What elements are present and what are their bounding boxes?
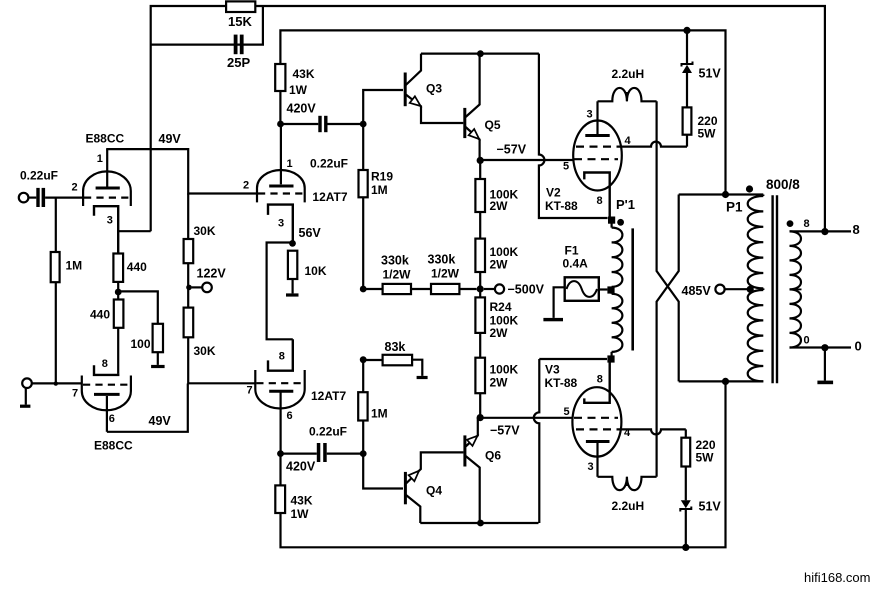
winding P'1 xyxy=(612,220,623,359)
wire collector rail Q3/Q5 xyxy=(421,50,539,57)
svg-text:R24: R24 xyxy=(490,300,512,314)
svg-text:25P: 25P xyxy=(227,55,250,70)
svg-text:−500V: −500V xyxy=(508,283,545,297)
svg-text:Q3: Q3 xyxy=(426,82,442,96)
fuse F1 0.4A xyxy=(563,244,608,301)
svg-text:2.2uH: 2.2uH xyxy=(612,67,645,81)
cathode 12AT7 lower xyxy=(268,339,293,370)
svg-text:30K: 30K xyxy=(194,224,216,238)
zener diode 51V upper xyxy=(682,27,722,81)
svg-text:12AT7: 12AT7 xyxy=(312,190,347,204)
capacitor 0.22uF upper coupling xyxy=(281,116,367,171)
ground fuse xyxy=(543,287,564,321)
svg-text:E88CC: E88CC xyxy=(86,132,125,146)
node -57V lower xyxy=(477,414,521,438)
svg-text:1M: 1M xyxy=(371,183,388,197)
winding P1 primary xyxy=(748,195,764,382)
svg-text:43K: 43K xyxy=(291,494,313,508)
svg-text:485V: 485V xyxy=(682,284,712,298)
svg-text:4: 4 xyxy=(625,135,632,147)
svg-text:KT-88: KT-88 xyxy=(545,376,578,390)
cathode 12AT7 upper xyxy=(268,205,321,247)
transistor Q4 xyxy=(404,452,464,523)
svg-text:F1: F1 xyxy=(565,244,579,258)
svg-text:KT-88: KT-88 xyxy=(545,199,578,213)
node 485V xyxy=(682,284,754,298)
svg-text:8: 8 xyxy=(597,195,603,207)
svg-text:−57V: −57V xyxy=(490,424,520,438)
resistor 100K #1 xyxy=(475,160,518,213)
cathode V1a xyxy=(94,206,118,253)
wire bottom rail xyxy=(281,381,726,547)
svg-text:51V: 51V xyxy=(699,67,722,81)
inductor 2.2uH upper xyxy=(598,67,657,101)
wire V3 pin 4 (hops vertical) xyxy=(621,429,685,434)
tube 12AT7 lower envelope xyxy=(247,351,347,423)
wire anode V1a to 12AT7 grid xyxy=(106,149,257,193)
resistor 10K xyxy=(288,251,327,294)
svg-text:1M: 1M xyxy=(66,259,83,273)
watermark xyxy=(804,570,870,585)
wire V2 anode branch to P1 bottom xyxy=(657,101,679,381)
node -57V upper xyxy=(477,143,527,164)
resistor 440 lower xyxy=(90,300,123,374)
node P'1 bottom xyxy=(607,355,614,362)
core P'1 xyxy=(631,228,634,350)
node -500V xyxy=(477,283,545,297)
node 122V xyxy=(186,267,226,293)
svg-text:P'1: P'1 xyxy=(616,197,635,212)
svg-text:6: 6 xyxy=(287,410,293,422)
tube E88CC upper envelope xyxy=(72,132,131,227)
resistor 220 5W lower xyxy=(681,429,715,500)
svg-text:2W: 2W xyxy=(490,376,509,390)
svg-text:5W: 5W xyxy=(696,451,715,465)
svg-text:Q6: Q6 xyxy=(485,449,501,463)
svg-text:hifi168.com: hifi168.com xyxy=(804,570,870,585)
svg-text:2.2uH: 2.2uH xyxy=(612,499,645,513)
capacitor 0.22uF input xyxy=(20,169,58,208)
node secondary phase dot xyxy=(787,220,794,227)
node P'1 top xyxy=(608,197,635,226)
svg-text:8: 8 xyxy=(804,218,810,230)
svg-text:8: 8 xyxy=(279,351,285,363)
anode 12AT7 upper xyxy=(269,124,293,186)
node input 2 xyxy=(22,378,82,388)
wire cathodes 12AT7 tie xyxy=(267,243,293,340)
winding 800/8 secondary xyxy=(766,177,802,348)
resistor 43K lower xyxy=(275,450,316,521)
wire -57V to V2 grid pin 5 xyxy=(480,159,573,161)
wire grid V3b 12AT7 lower xyxy=(188,382,255,384)
resistor 30K lower xyxy=(184,308,216,384)
svg-text:5W: 5W xyxy=(698,127,717,141)
svg-text:800/8: 800/8 xyxy=(766,177,800,192)
anode V2 xyxy=(585,101,609,135)
resistor 100 xyxy=(118,291,163,365)
svg-text:330k: 330k xyxy=(428,253,456,267)
svg-text:0.4A: 0.4A xyxy=(563,257,589,271)
wire P1 bottom xyxy=(679,378,764,385)
anode V1b xyxy=(94,394,120,431)
node output 0 xyxy=(790,335,862,354)
svg-text:2W: 2W xyxy=(490,258,509,272)
ground input 2 xyxy=(20,388,30,408)
wire cathode V1a to feedback xyxy=(118,132,181,231)
wire P'1 bottom left xyxy=(539,358,607,360)
wire B+ rail (420V/485V) xyxy=(280,30,725,194)
svg-text:3: 3 xyxy=(588,461,594,473)
tube V2 envelope xyxy=(545,109,632,214)
wire 25P branch xyxy=(151,7,263,45)
resistor 30K upper xyxy=(184,194,216,308)
resistor 100K #4 xyxy=(475,358,518,418)
svg-text:0.22uF: 0.22uF xyxy=(20,169,58,183)
svg-text:5: 5 xyxy=(563,161,569,173)
cathode V1b xyxy=(94,365,118,375)
svg-text:0.22uF: 0.22uF xyxy=(309,425,347,439)
svg-text:0: 0 xyxy=(855,339,862,354)
wire input grid xyxy=(45,197,83,199)
resistor 100K #2 xyxy=(475,212,518,297)
svg-text:2W: 2W xyxy=(490,326,509,340)
ground output xyxy=(817,348,833,385)
svg-text:Q5: Q5 xyxy=(485,118,501,132)
svg-text:7: 7 xyxy=(72,388,78,400)
capacitor 0.22uF lower coupling xyxy=(281,425,367,463)
ground 10K xyxy=(286,293,299,296)
svg-text:2W: 2W xyxy=(490,199,509,213)
svg-text:8: 8 xyxy=(102,358,108,370)
svg-text:49V: 49V xyxy=(159,132,182,146)
svg-text:6: 6 xyxy=(109,413,115,425)
node P1 phase dot xyxy=(726,185,753,214)
svg-text:12AT7: 12AT7 xyxy=(311,389,346,403)
svg-text:49V: 49V xyxy=(149,414,172,428)
svg-text:440: 440 xyxy=(90,308,110,322)
wire P'1 bottom to Q4/Q6 emitters (hops -57V wire) xyxy=(534,359,539,523)
resistor 83k xyxy=(363,340,422,376)
wire P1 top branch to V3 anode (hops pin4 wire) xyxy=(657,195,679,477)
svg-text:E88CC: E88CC xyxy=(94,439,133,453)
node input 1 xyxy=(19,193,37,203)
svg-text:1M: 1M xyxy=(371,407,388,421)
svg-text:83k: 83k xyxy=(385,340,406,354)
resistor 220 5W upper xyxy=(683,73,718,147)
svg-text:43K: 43K xyxy=(293,67,315,81)
resistor 440 upper xyxy=(113,254,147,300)
svg-text:8: 8 xyxy=(853,222,860,237)
resistor 15K xyxy=(226,1,255,29)
ground 83k xyxy=(417,376,428,379)
grid dashes V3 xyxy=(574,418,621,430)
anode V1a xyxy=(96,149,120,188)
wire base Q4 xyxy=(363,454,403,489)
svg-text:R19: R19 xyxy=(371,170,393,184)
anode V3 xyxy=(586,442,610,477)
resistor 330k right xyxy=(411,253,477,295)
wire -57V to V3 grid pin 5 xyxy=(480,417,572,419)
cathode V2 xyxy=(584,173,609,219)
svg-text:P1: P1 xyxy=(726,200,743,215)
svg-text:10K: 10K xyxy=(305,264,327,278)
svg-text:51V: 51V xyxy=(699,500,722,514)
svg-text:7: 7 xyxy=(247,385,253,397)
svg-text:8: 8 xyxy=(597,374,603,386)
svg-text:1W: 1W xyxy=(289,83,308,97)
wire base Q3 xyxy=(363,90,403,124)
wire V2 pin 4 (hops vertical) xyxy=(622,142,687,147)
svg-text:0: 0 xyxy=(804,335,810,347)
tube V3 envelope xyxy=(545,363,632,474)
wire anode V1b to 30K node xyxy=(107,384,188,432)
svg-text:2: 2 xyxy=(72,182,78,194)
svg-text:330k: 330k xyxy=(381,254,409,268)
transistor Q5 xyxy=(463,54,501,161)
tube E88CC lower envelope xyxy=(72,358,133,453)
svg-text:3: 3 xyxy=(587,109,593,121)
svg-text:Q4: Q4 xyxy=(426,484,442,498)
svg-text:420V: 420V xyxy=(287,102,317,116)
svg-text:1: 1 xyxy=(287,158,293,170)
resistor 43K upper xyxy=(275,64,316,127)
node P'1 center tap xyxy=(607,286,614,293)
wire P1 top xyxy=(679,191,764,198)
cathode V3 xyxy=(584,359,609,403)
svg-text:100K: 100K xyxy=(490,363,519,377)
svg-text:0.22uF: 0.22uF xyxy=(310,157,348,171)
wire emitters Q4/Q6 xyxy=(420,520,538,527)
resistor 1M lower xyxy=(358,356,387,453)
grid dashes V2 xyxy=(574,147,621,160)
svg-text:V3: V3 xyxy=(545,363,560,377)
svg-text:30K: 30K xyxy=(194,344,216,358)
svg-text:V2: V2 xyxy=(546,186,561,200)
node output 8 xyxy=(790,218,860,237)
resistor 330k left xyxy=(360,254,411,295)
svg-text:2: 2 xyxy=(243,180,249,192)
capacitor 25P xyxy=(227,35,250,70)
svg-text:15K: 15K xyxy=(228,14,252,29)
ground 100 xyxy=(151,365,165,368)
anode 12AT7 lower xyxy=(269,391,293,453)
tube 12AT7 upper envelope xyxy=(243,158,348,230)
svg-text:−57V: −57V xyxy=(497,143,527,157)
wire Q5 rail to P'1 top (hops -57V wire) xyxy=(539,54,608,218)
svg-text:56V: 56V xyxy=(299,226,322,240)
inductor 2.2uH lower xyxy=(598,477,657,513)
core P1 xyxy=(773,195,777,383)
svg-text:1W: 1W xyxy=(291,507,310,521)
zener diode 51V lower xyxy=(680,500,721,552)
svg-text:3: 3 xyxy=(278,218,284,230)
svg-text:122V: 122V xyxy=(197,267,227,281)
resistor R24 100K xyxy=(475,297,518,357)
svg-text:1/2W: 1/2W xyxy=(383,268,412,282)
svg-text:3: 3 xyxy=(107,215,113,227)
svg-text:100: 100 xyxy=(131,337,151,351)
svg-text:1/2W: 1/2W xyxy=(431,267,460,281)
transistor Q3 xyxy=(404,54,464,123)
resistor 1M input xyxy=(51,198,82,386)
svg-text:1: 1 xyxy=(97,153,103,165)
svg-text:5: 5 xyxy=(564,406,570,418)
wire top feedback rail xyxy=(151,6,825,232)
svg-text:440: 440 xyxy=(127,260,147,274)
resistor R19 1M xyxy=(359,124,394,289)
svg-text:420V: 420V xyxy=(286,460,316,474)
transistor Q6 xyxy=(463,418,501,523)
